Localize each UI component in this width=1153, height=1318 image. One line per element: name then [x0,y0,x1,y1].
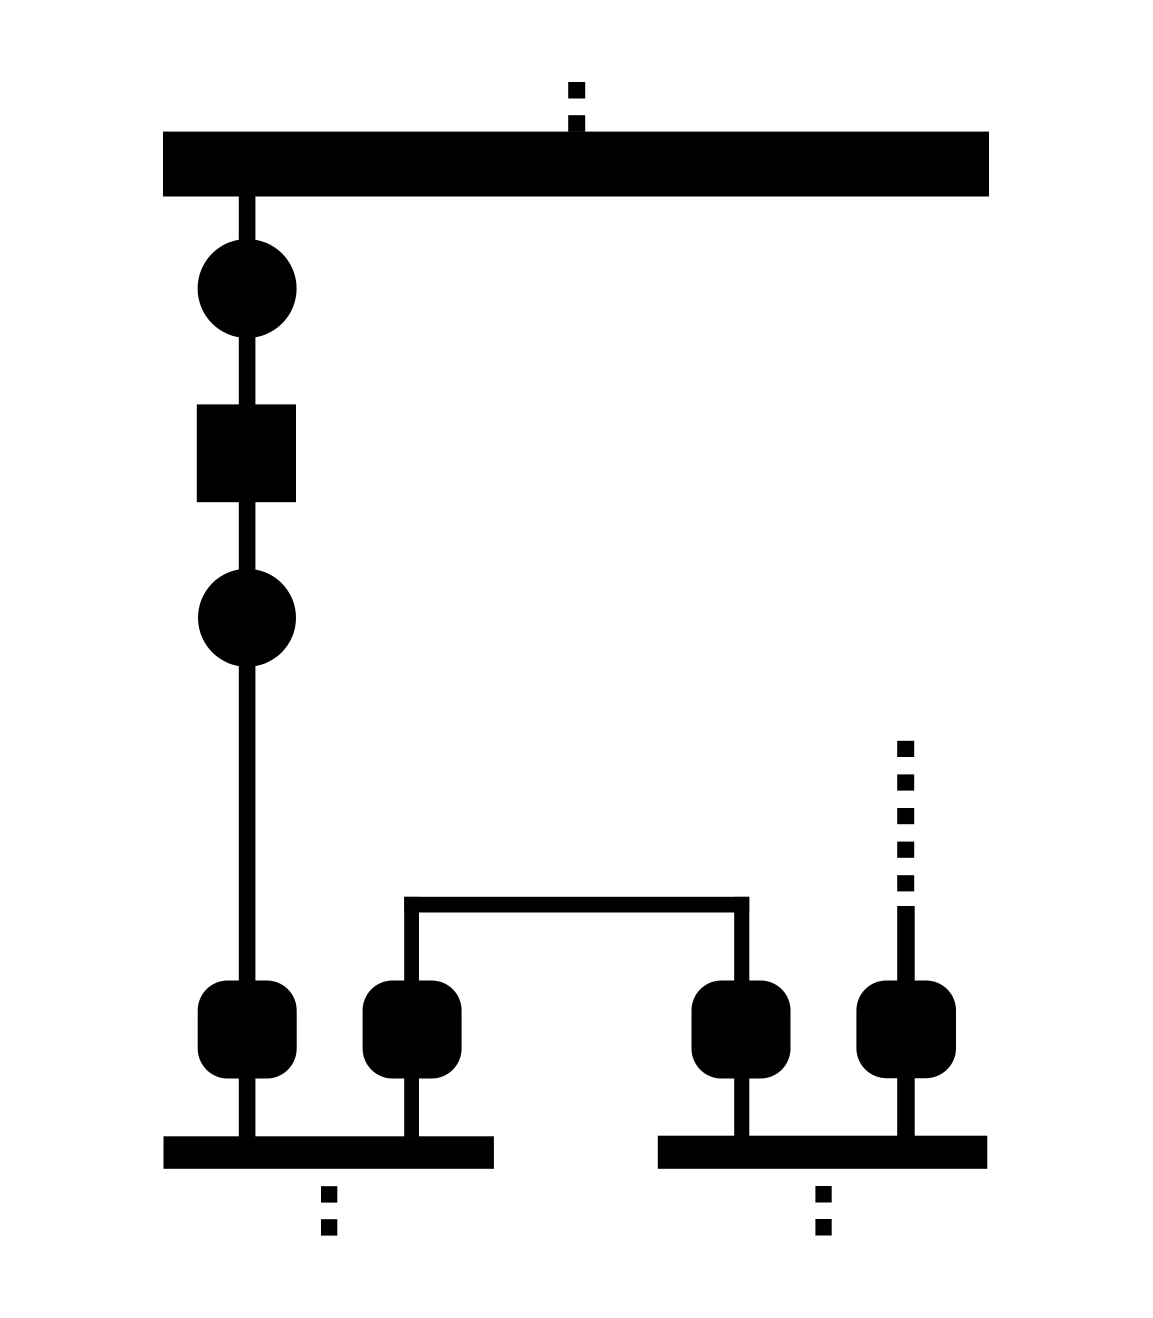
dashed incoming feeder above switch T4 [897,741,914,892]
wire: T2 to busbar B [404,1076,419,1138]
disconnector S1 (circle) [198,239,297,338]
load-break switch T1 (rounded square) [198,981,297,1079]
wire: S2 to switch T1 [239,662,256,984]
dashed continuation below busbar C [815,1186,831,1236]
circuit breaker Q1 (square) [197,404,296,502]
wire: Q1 to disconnector S2 [239,499,256,574]
wire: S1 to circuit breaker Q1 [239,334,256,408]
wire: T3 to busbar C [734,1076,749,1137]
wire: incoming feeder to T4 [897,906,915,984]
dashed continuation below busbar B [321,1186,337,1235]
busbar B (bottom-left bus) [164,1136,494,1169]
load-break switch T3 (rounded square) [692,981,791,1079]
wire: T1 to busbar B [239,1076,256,1138]
busbar A (top main bus) [163,132,989,197]
wire: T4 to busbar C [897,1076,915,1137]
load-break switch T2 (rounded square) [363,981,462,1079]
dashed continuation above busbar A [568,82,585,132]
bridge wire: T2 to T3 (inverted U link) [404,897,749,983]
busbar C (bottom-right bus) [658,1136,988,1169]
disconnector S2 (circle) [198,569,296,667]
load-break switch T4 (rounded square) [856,981,956,1079]
wire: busbar A to disconnector S1 [239,195,256,245]
